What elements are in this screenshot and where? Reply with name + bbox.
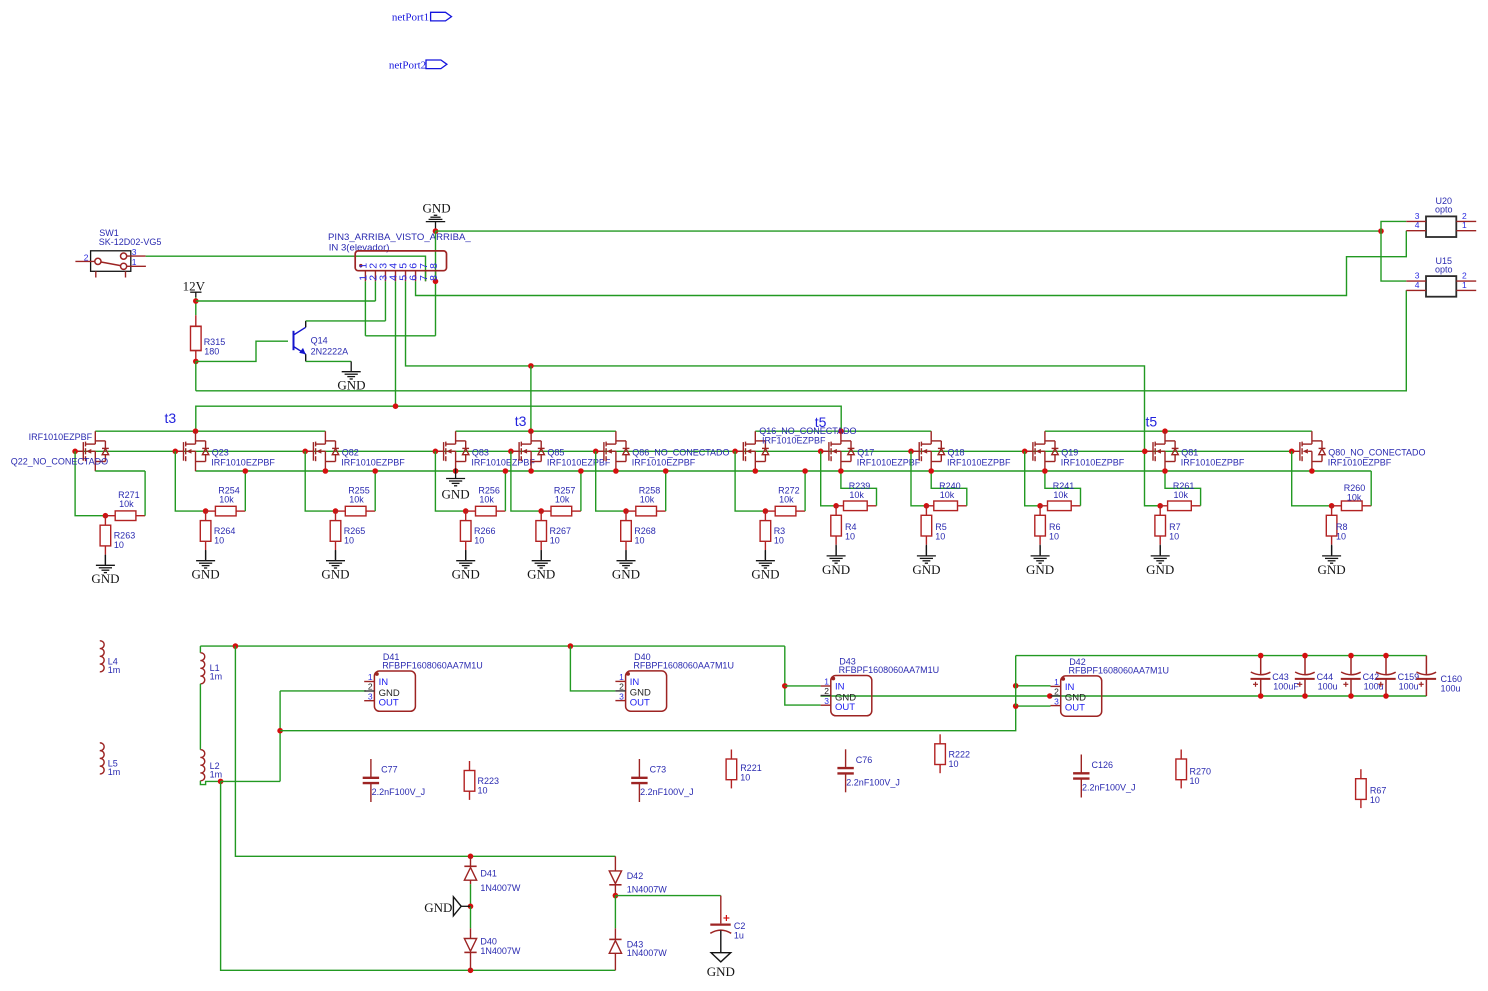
svg-text:100uF: 100uF xyxy=(1273,681,1299,691)
svg-text:1: 1 xyxy=(132,257,137,267)
svg-text:GND: GND xyxy=(321,567,349,582)
svg-text:1m: 1m xyxy=(210,672,223,682)
svg-text:GND: GND xyxy=(424,900,452,915)
svg-text:10k: 10k xyxy=(1174,490,1189,500)
svg-text:10k: 10k xyxy=(119,499,134,509)
svg-text:10: 10 xyxy=(1336,532,1346,542)
svg-text:1: 1 xyxy=(824,677,829,687)
svg-text:2.2nF100V_J: 2.2nF100V_J xyxy=(640,787,694,797)
svg-text:10: 10 xyxy=(1169,532,1179,542)
svg-text:R6: R6 xyxy=(1049,522,1061,532)
svg-text:10: 10 xyxy=(474,535,484,545)
svg-text:R67: R67 xyxy=(1370,786,1387,796)
svg-text:OUT: OUT xyxy=(379,698,399,709)
svg-text:C77: C77 xyxy=(381,765,398,775)
svg-text:10: 10 xyxy=(740,773,750,783)
svg-text:IN 3(elevador): IN 3(elevador) xyxy=(329,243,390,254)
svg-text:10: 10 xyxy=(214,535,224,545)
svg-text:SK-12D02-VG5: SK-12D02-VG5 xyxy=(99,237,162,247)
svg-text:10: 10 xyxy=(935,532,945,542)
svg-text:Q81: Q81 xyxy=(1181,447,1198,457)
svg-text:10k: 10k xyxy=(1347,492,1362,502)
svg-text:IRF1010EZPBF: IRF1010EZPBF xyxy=(211,458,275,468)
svg-text:Q83: Q83 xyxy=(472,447,489,457)
svg-text:GND: GND xyxy=(751,567,779,582)
svg-text:Q80_NO_CONECTADO: Q80_NO_CONECTADO xyxy=(1328,447,1425,457)
svg-text:IRF1010EZPBF: IRF1010EZPBF xyxy=(547,458,611,468)
svg-text:IRF1010EZPBF: IRF1010EZPBF xyxy=(1181,458,1245,468)
svg-text:t3: t3 xyxy=(165,410,177,426)
svg-text:1N4007W: 1N4007W xyxy=(480,883,521,893)
svg-text:IN: IN xyxy=(379,677,389,688)
svg-text:C2: C2 xyxy=(734,921,746,931)
svg-text:Q23: Q23 xyxy=(212,447,229,457)
svg-text:2: 2 xyxy=(368,682,373,692)
svg-text:R270: R270 xyxy=(1190,766,1212,776)
svg-text:10k: 10k xyxy=(555,495,570,505)
svg-text:2: 2 xyxy=(84,253,89,263)
svg-text:Q85: Q85 xyxy=(547,447,564,457)
svg-text:IRF1010EZPBF: IRF1010EZPBF xyxy=(471,458,535,468)
svg-text:C76: C76 xyxy=(856,755,873,765)
svg-text:IN: IN xyxy=(835,682,845,693)
svg-text:RFBPF1608060AA7M1U: RFBPF1608060AA7M1U xyxy=(633,661,734,671)
svg-text:R315: R315 xyxy=(204,337,226,347)
svg-text:100u: 100u xyxy=(1441,684,1461,694)
svg-text:C73: C73 xyxy=(650,765,667,775)
svg-text:1N4007W: 1N4007W xyxy=(627,948,668,958)
svg-text:R266: R266 xyxy=(474,526,496,536)
svg-text:12V: 12V xyxy=(183,279,206,294)
svg-text:1u: 1u xyxy=(734,931,744,941)
svg-text:3: 3 xyxy=(132,247,137,257)
svg-text:IRF1010EZPBF: IRF1010EZPBF xyxy=(341,458,405,468)
svg-text:100u: 100u xyxy=(1399,681,1419,691)
svg-text:Q86_NO_CONECTADO: Q86_NO_CONECTADO xyxy=(632,447,729,457)
svg-text:Q16_NO_CONECTADO: Q16_NO_CONECTADO xyxy=(759,426,856,436)
svg-text:R222: R222 xyxy=(949,750,971,760)
svg-text:GND: GND xyxy=(452,567,480,582)
svg-text:1: 1 xyxy=(619,672,624,682)
svg-text:Q18: Q18 xyxy=(948,447,965,457)
svg-text:3: 3 xyxy=(619,691,624,701)
svg-text:GND: GND xyxy=(192,567,220,582)
svg-text:GND: GND xyxy=(1026,562,1054,577)
svg-text:2.2nF100V_J: 2.2nF100V_J xyxy=(372,787,426,797)
svg-text:R263: R263 xyxy=(114,531,136,541)
svg-text:10k: 10k xyxy=(779,495,794,505)
svg-text:Q19: Q19 xyxy=(1061,447,1078,457)
svg-text:10: 10 xyxy=(845,532,855,542)
svg-text:2.2nF100V_J: 2.2nF100V_J xyxy=(1082,783,1136,793)
svg-text:2: 2 xyxy=(619,682,624,692)
svg-text:C126: C126 xyxy=(1092,760,1114,770)
svg-text:10: 10 xyxy=(344,535,354,545)
svg-text:opto: opto xyxy=(1435,205,1453,215)
svg-text:1: 1 xyxy=(1462,220,1467,230)
svg-text:R268: R268 xyxy=(634,526,656,536)
svg-text:100u: 100u xyxy=(1318,681,1338,691)
svg-text:R267: R267 xyxy=(550,526,572,536)
svg-text:Q22_NO_CONECTADO: Q22_NO_CONECTADO xyxy=(11,457,108,467)
svg-text:netPort1: netPort1 xyxy=(392,11,429,23)
svg-text:IN: IN xyxy=(630,677,640,688)
svg-text:IRF1010EZPBF: IRF1010EZPBF xyxy=(632,458,696,468)
svg-text:netPort2: netPort2 xyxy=(389,59,426,71)
svg-text:2.2nF100V_J: 2.2nF100V_J xyxy=(846,778,900,788)
svg-text:4: 4 xyxy=(1415,280,1420,290)
svg-text:1m: 1m xyxy=(108,665,121,675)
svg-text:10k: 10k xyxy=(219,495,234,505)
svg-text:Q17: Q17 xyxy=(857,447,874,457)
svg-text:GND: GND xyxy=(442,486,470,501)
svg-text:10: 10 xyxy=(478,786,488,796)
svg-text:RFBPF1608060AA7M1U: RFBPF1608060AA7M1U xyxy=(839,665,940,675)
svg-text:2: 2 xyxy=(1054,687,1059,697)
svg-text:1: 1 xyxy=(1462,280,1467,290)
svg-text:3: 3 xyxy=(368,691,373,701)
svg-text:PIN3_ARRIBA_VISTO_ARRIBA_: PIN3_ARRIBA_VISTO_ARRIBA_ xyxy=(328,232,471,243)
svg-text:1N4007W: 1N4007W xyxy=(480,946,521,956)
svg-text:R8: R8 xyxy=(1336,522,1348,532)
svg-text:R4: R4 xyxy=(845,522,857,532)
svg-text:GND: GND xyxy=(912,562,940,577)
svg-text:1: 1 xyxy=(368,672,373,682)
svg-text:R223: R223 xyxy=(478,776,500,786)
svg-text:10k: 10k xyxy=(1053,490,1068,500)
svg-text:IRF1010EZPBF: IRF1010EZPBF xyxy=(762,436,826,446)
svg-text:10: 10 xyxy=(949,759,959,769)
svg-text:OUT: OUT xyxy=(835,702,855,713)
svg-text:OUT: OUT xyxy=(1065,703,1085,714)
svg-text:OUT: OUT xyxy=(630,698,650,709)
svg-text:4: 4 xyxy=(1415,220,1420,230)
svg-text:RFBPF1608060AA7M1U: RFBPF1608060AA7M1U xyxy=(382,661,483,671)
svg-text:R221: R221 xyxy=(740,763,762,773)
svg-text:IRF1010EZPBF: IRF1010EZPBF xyxy=(29,432,93,442)
svg-text:10k: 10k xyxy=(640,495,655,505)
svg-text:2: 2 xyxy=(824,686,829,696)
svg-text:10: 10 xyxy=(1370,795,1380,805)
svg-text:10k: 10k xyxy=(479,495,494,505)
svg-text:10k: 10k xyxy=(349,495,364,505)
svg-text:Q14: Q14 xyxy=(311,336,328,346)
svg-text:IRF1010EZPBF: IRF1010EZPBF xyxy=(947,458,1011,468)
svg-text:IRF1010EZPBF: IRF1010EZPBF xyxy=(1061,458,1125,468)
svg-text:10: 10 xyxy=(550,535,560,545)
svg-text:8: 8 xyxy=(428,275,440,281)
svg-text:GND: GND xyxy=(707,964,735,979)
svg-text:R265: R265 xyxy=(344,526,366,536)
svg-text:C160: C160 xyxy=(1441,674,1463,684)
svg-text:10: 10 xyxy=(114,540,124,550)
svg-text:GND: GND xyxy=(612,567,640,582)
svg-text:R264: R264 xyxy=(214,526,236,536)
svg-text:RFBPF1608060AA7M1U: RFBPF1608060AA7M1U xyxy=(1069,666,1170,676)
svg-text:1m: 1m xyxy=(210,770,223,780)
svg-text:1: 1 xyxy=(1054,677,1059,687)
svg-text:10k: 10k xyxy=(940,490,955,500)
svg-text:GND: GND xyxy=(822,562,850,577)
svg-text:GND: GND xyxy=(1318,562,1346,577)
svg-text:t5: t5 xyxy=(1146,414,1158,430)
svg-text:D42: D42 xyxy=(627,871,644,881)
svg-text:GND: GND xyxy=(423,201,451,216)
svg-text:R5: R5 xyxy=(935,522,947,532)
svg-text:10k: 10k xyxy=(849,490,864,500)
svg-text:1m: 1m xyxy=(108,767,121,777)
svg-text:opto: opto xyxy=(1435,264,1453,274)
svg-text:180: 180 xyxy=(204,347,219,357)
svg-text:t3: t3 xyxy=(515,413,527,429)
svg-text:R3: R3 xyxy=(774,526,786,536)
svg-text:GND: GND xyxy=(91,571,119,586)
svg-text:Q82: Q82 xyxy=(342,447,359,457)
svg-text:3: 3 xyxy=(1054,696,1059,706)
svg-text:10: 10 xyxy=(774,535,784,545)
svg-text:10: 10 xyxy=(1049,532,1059,542)
svg-text:3: 3 xyxy=(824,696,829,706)
svg-text:GND: GND xyxy=(1146,562,1174,577)
svg-text:IRF1010EZPBF: IRF1010EZPBF xyxy=(1328,458,1392,468)
svg-text:D41: D41 xyxy=(480,869,497,879)
svg-text:GND: GND xyxy=(527,567,555,582)
svg-text:10: 10 xyxy=(1190,776,1200,786)
svg-text:10: 10 xyxy=(635,535,645,545)
svg-text:1N4007W: 1N4007W xyxy=(627,885,668,895)
svg-text:R7: R7 xyxy=(1169,522,1181,532)
svg-text:IN: IN xyxy=(1065,682,1075,693)
svg-text:2N2222A: 2N2222A xyxy=(311,347,349,357)
svg-text:8: 8 xyxy=(428,263,440,269)
